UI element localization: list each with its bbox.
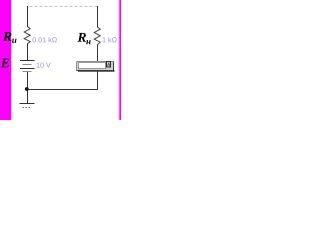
label Rи - subscript и	[12, 39, 16, 43]
resistor Rи (0.01 kΩ) zigzag	[24, 27, 30, 44]
ground	[20, 104, 35, 108]
label Rи - R	[3, 32, 12, 41]
wire: left branch top vertical segment	[27, 6, 29, 27]
node: junction dot at bottom-left	[25, 87, 29, 91]
value 0.01 kΩ	[32, 37, 56, 42]
ammeter A box	[77, 62, 115, 72]
label Rн - R	[77, 33, 86, 42]
ammeter letter A	[107, 63, 110, 66]
wire: left branch between resistor and battery	[27, 44, 29, 61]
wire: right branch top vertical segment	[97, 6, 99, 28]
resistor Rн (1 kΩ) zigzag	[94, 27, 100, 45]
value 10 V	[37, 63, 51, 68]
value 1 kΩ	[103, 37, 117, 42]
wire: top dashed net between left and right branches	[30, 6, 98, 8]
label E	[1, 59, 9, 68]
wire: ammeter to bottom node	[28, 71, 98, 90]
wire: battery to ground vertical segment	[27, 72, 29, 104]
battery E plates	[20, 61, 35, 72]
label Rн - subscript н	[86, 40, 90, 44]
wire: resistor Rн to ammeter	[97, 45, 99, 62]
